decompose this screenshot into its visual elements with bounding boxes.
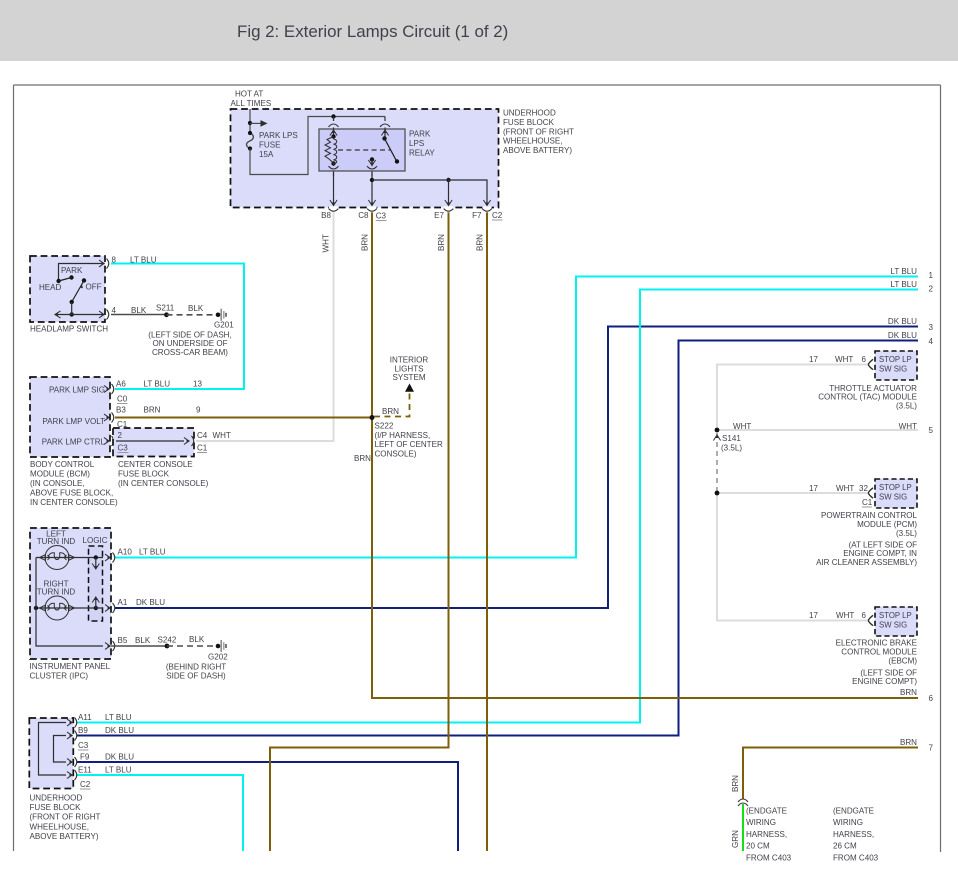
svg-text:PARK LMP SIG: PARK LMP SIG — [49, 386, 105, 395]
svg-text:PARK LMP VOLT: PARK LMP VOLT — [42, 417, 105, 426]
svg-text:SYSTEM: SYSTEM — [392, 373, 425, 382]
svg-text:RELAY: RELAY — [409, 149, 435, 158]
wire BRN relay C3 through S222 to right exit 6 — [372, 212, 918, 698]
svg-text:FUSE BLOCK: FUSE BLOCK — [503, 118, 555, 127]
svg-text:E7: E7 — [434, 211, 444, 220]
svg-text:BLK: BLK — [131, 306, 147, 315]
pin B9 — [67, 732, 72, 739]
headlamp switch blade OFF — [72, 281, 84, 303]
svg-text:2: 2 — [118, 431, 123, 440]
svg-text:WHEELHOUSE,: WHEELHOUSE, — [30, 822, 89, 831]
svg-text:S242: S242 — [158, 636, 177, 645]
svg-text:HARNESS,: HARNESS, — [746, 830, 787, 839]
svg-text:BLK: BLK — [189, 635, 205, 644]
svg-text:LT BLU: LT BLU — [139, 548, 166, 557]
relay bottom post connectors — [329, 166, 339, 169]
pin A11 — [67, 719, 72, 726]
svg-text:B8: B8 — [321, 211, 331, 220]
svg-text:Fig 2: Exterior Lamps Circuit: Fig 2: Exterior Lamps Circuit (1 of 2) — [237, 22, 508, 41]
svg-text:BRN: BRN — [437, 234, 446, 251]
wire WHT stop lamp rail TAC — [717, 365, 869, 431]
svg-text:17: 17 — [809, 611, 818, 620]
svg-text:7: 7 — [929, 744, 934, 753]
splice S211 — [164, 312, 169, 317]
svg-text:WHT: WHT — [322, 234, 331, 252]
svg-text:A10: A10 — [118, 548, 133, 557]
underhood fuse block (top) box — [231, 109, 499, 208]
logic block — [89, 546, 103, 621]
svg-text:ENGINE COMPT): ENGINE COMPT) — [852, 677, 917, 686]
svg-text:(LEFT SIDE OF: (LEFT SIDE OF — [860, 669, 917, 678]
svg-text:LPS: LPS — [409, 139, 424, 148]
svg-text:5: 5 — [929, 426, 934, 435]
svg-text:15A: 15A — [259, 150, 274, 159]
EBCM STOP LP SW SIG box — [875, 607, 917, 636]
pin E11 — [67, 772, 72, 779]
svg-text:(LEFT SIDE OF DASH,: (LEFT SIDE OF DASH, — [148, 331, 231, 340]
svg-text:SIDE OF DASH): SIDE OF DASH) — [166, 672, 226, 681]
fuse PARK LPS FUSE 15A — [249, 109, 251, 133]
svg-text:HEAD: HEAD — [39, 283, 62, 292]
svg-text:BRN: BRN — [360, 234, 369, 251]
svg-text:C1: C1 — [197, 444, 208, 453]
svg-text:1: 1 — [929, 271, 934, 280]
svg-text:THROTTLE ACTUATOR: THROTTLE ACTUATOR — [829, 384, 917, 393]
svg-text:C4: C4 — [197, 431, 208, 440]
svg-text:8: 8 — [112, 256, 117, 265]
svg-text:ON UNDERSIDE OF: ON UNDERSIDE OF — [152, 339, 227, 348]
svg-text:13: 13 — [193, 380, 202, 389]
wire DK BLU UHFB F9 down — [77, 762, 458, 851]
svg-text:POWERTRAIN CONTROL: POWERTRAIN CONTROL — [821, 511, 917, 520]
svg-text:(FRONT OF RIGHT: (FRONT OF RIGHT — [503, 127, 574, 136]
svg-text:CLUSTER (IPC): CLUSTER (IPC) — [30, 672, 89, 681]
svg-text:WHT: WHT — [899, 422, 917, 431]
svg-text:ABOVE BATTERY): ABOVE BATTERY) — [503, 146, 572, 155]
svg-text:LT BLU: LT BLU — [130, 256, 157, 265]
relay PARK LPS RELAY — [319, 129, 405, 171]
wire LT BLU IPC A10 to right exit 1 — [115, 277, 918, 558]
svg-text:SW SIG: SW SIG — [879, 621, 907, 630]
underhood fuse block (bottom) box — [29, 718, 73, 789]
svg-text:(ENDGATE: (ENDGATE — [746, 807, 788, 816]
headlamp switch contacts — [59, 264, 104, 280]
svg-text:G202: G202 — [208, 653, 228, 662]
center console fuse block box — [113, 428, 194, 457]
svg-text:G201: G201 — [214, 321, 234, 330]
svg-text:PARK: PARK — [409, 130, 431, 139]
svg-text:CONSOLE): CONSOLE) — [375, 449, 417, 458]
svg-text:WIRING: WIRING — [833, 818, 863, 827]
svg-text:DK BLU: DK BLU — [105, 753, 134, 762]
svg-text:C3: C3 — [78, 741, 89, 750]
diagram frame — [14, 84, 941, 86]
svg-text:DK BLU: DK BLU — [888, 317, 917, 326]
svg-text:BRN: BRN — [475, 234, 484, 251]
svg-text:SW SIG: SW SIG — [879, 493, 907, 502]
svg-text:A6: A6 — [116, 380, 126, 389]
svg-text:BRN: BRN — [382, 407, 399, 416]
svg-text:3: 3 — [929, 323, 934, 332]
wire BLK pin4 to S211 — [111, 314, 167, 316]
svg-text:BRN: BRN — [731, 775, 740, 792]
svg-text:(IN CONSOLE,: (IN CONSOLE, — [30, 479, 85, 488]
svg-text:LT BLU: LT BLU — [144, 380, 171, 389]
svg-text:BODY CONTROL: BODY CONTROL — [30, 460, 95, 469]
svg-text:S211: S211 — [156, 304, 175, 313]
center console pin 2 wire — [116, 440, 184, 442]
pin 4 — [99, 311, 104, 318]
fuse block internal wires to pins — [333, 173, 335, 205]
wire LT BLU UHFB E11 down — [77, 775, 243, 851]
relay actuator dashed link — [338, 149, 390, 151]
wire LT BLU UHFB A11 to right exit 2 — [77, 290, 918, 723]
wire BLK B5 to S242 — [111, 645, 167, 647]
svg-text:SW SIG: SW SIG — [879, 365, 907, 374]
svg-text:STOP LP: STOP LP — [879, 483, 912, 492]
svg-text:CONTROL MODULE: CONTROL MODULE — [841, 648, 917, 657]
svg-text:GRN: GRN — [731, 830, 740, 848]
pin A10 — [105, 554, 110, 561]
svg-text:2: 2 — [929, 285, 934, 294]
svg-text:C3: C3 — [118, 444, 129, 453]
svg-text:DK BLU: DK BLU — [136, 598, 165, 607]
endgate inline connector C403 — [738, 799, 748, 802]
wire BRN BCM B3 to S222 — [115, 417, 372, 419]
svg-text:BRN: BRN — [144, 406, 161, 415]
svg-text:DK BLU: DK BLU — [888, 331, 917, 340]
svg-text:C2: C2 — [80, 780, 91, 789]
svg-text:WHT: WHT — [836, 611, 854, 620]
svg-text:PARK LMP CTRL: PARK LMP CTRL — [42, 438, 106, 447]
fuse block bottom border bumps B8 C8 E7 F7 — [329, 206, 338, 212]
svg-text:UNDERHOOD: UNDERHOOD — [503, 109, 556, 118]
wire WHT exit 5 from S141 — [717, 429, 918, 431]
wire WHT B8 to center console C4 — [196, 212, 334, 441]
svg-text:ABOVE BATTERY): ABOVE BATTERY) — [30, 832, 99, 841]
svg-text:C8: C8 — [358, 211, 369, 220]
wire WHT rail to EBCM — [717, 494, 869, 621]
svg-text:STOP LP: STOP LP — [879, 611, 912, 620]
svg-text:BLK: BLK — [135, 636, 151, 645]
relay top post connectors — [331, 114, 335, 118]
ground G202 — [216, 644, 221, 649]
svg-text:(ENDGATE: (ENDGATE — [833, 807, 875, 816]
svg-text:(EBCM): (EBCM) — [888, 657, 917, 666]
svg-text:IN CENTER CONSOLE): IN CENTER CONSOLE) — [30, 498, 118, 507]
svg-text:LEFT OF CENTER: LEFT OF CENTER — [375, 440, 443, 449]
svg-text:AIR CLEANER ASSEMBLY): AIR CLEANER ASSEMBLY) — [816, 558, 917, 567]
svg-text:6: 6 — [862, 355, 867, 364]
svg-text:HARNESS,: HARNESS, — [833, 830, 874, 839]
svg-text:CENTER CONSOLE: CENTER CONSOLE — [118, 460, 193, 469]
svg-text:ALL TIMES: ALL TIMES — [231, 99, 272, 108]
svg-text:HOT AT: HOT AT — [235, 90, 263, 99]
svg-text:LT BLU: LT BLU — [890, 267, 917, 276]
splice S141 — [715, 428, 720, 433]
svg-text:C2: C2 — [492, 211, 503, 220]
svg-text:HEADLAMP SWITCH: HEADLAMP SWITCH — [30, 325, 108, 334]
instrument panel cluster box — [30, 528, 111, 659]
svg-text:ELECTRONIC BRAKE: ELECTRONIC BRAKE — [836, 639, 918, 648]
svg-text:(I/P HARNESS,: (I/P HARNESS, — [375, 431, 431, 440]
svg-text:FUSE BLOCK: FUSE BLOCK — [118, 470, 170, 479]
svg-text:26 CM: 26 CM — [833, 842, 857, 851]
relay switch blade — [382, 136, 386, 140]
svg-text:E11: E11 — [78, 766, 92, 775]
svg-text:CROSS-CAR BEAM): CROSS-CAR BEAM) — [152, 348, 228, 357]
svg-text:TURN IND: TURN IND — [37, 588, 76, 597]
svg-text:PARK: PARK — [61, 266, 83, 275]
svg-text:F7: F7 — [472, 211, 482, 220]
svg-text:C1: C1 — [862, 498, 873, 507]
svg-text:4: 4 — [112, 306, 117, 315]
svg-text:BLK: BLK — [188, 304, 204, 313]
svg-text:DK BLU: DK BLU — [105, 726, 134, 735]
pin B5 — [105, 643, 110, 650]
pin A1 — [105, 605, 110, 612]
svg-text:B5: B5 — [118, 636, 128, 645]
svg-text:(FRONT OF RIGHT: (FRONT OF RIGHT — [30, 813, 101, 822]
splice S222 — [370, 415, 375, 420]
headlamp switch box — [30, 256, 105, 322]
svg-text:F9: F9 — [80, 753, 90, 762]
wire WHT dashed harness section S141 — [716, 433, 718, 491]
svg-text:C0: C0 — [117, 395, 128, 404]
pin F9 — [67, 759, 72, 766]
wire DK BLU IPC A1 to right exit 3 — [115, 327, 918, 609]
svg-text:S141: S141 — [722, 434, 741, 443]
svg-text:WHT: WHT — [733, 422, 751, 431]
svg-text:WHT: WHT — [835, 355, 853, 364]
svg-text:LOGIC: LOGIC — [82, 536, 107, 545]
svg-text:C3: C3 — [376, 212, 387, 221]
relay coil — [331, 134, 335, 138]
svg-text:WHT: WHT — [213, 431, 231, 440]
PCM STOP LP SW SIG box — [875, 479, 917, 508]
svg-text:MODULE (BCM): MODULE (BCM) — [30, 470, 90, 479]
svg-text:LT BLU: LT BLU — [105, 713, 132, 722]
svg-text:WHT: WHT — [836, 484, 854, 493]
svg-text:LT BLU: LT BLU — [890, 280, 917, 289]
svg-text:20 CM: 20 CM — [746, 842, 770, 851]
svg-text:BRN: BRN — [354, 454, 371, 463]
title bar — [0, 0, 958, 61]
svg-text:FROM C403: FROM C403 — [746, 853, 792, 862]
wire BLK dashed to G202 — [167, 645, 214, 647]
wire BRN relay E7 down-left-down — [270, 212, 449, 851]
svg-text:B3: B3 — [116, 406, 126, 415]
wire DK BLU UHFB B9 to right exit 4 — [77, 341, 918, 736]
svg-text:BRN: BRN — [900, 688, 917, 697]
svg-text:CONTROL (TAC) MODULE: CONTROL (TAC) MODULE — [818, 393, 917, 402]
svg-text:17: 17 — [809, 484, 818, 493]
internal bus B9-F9 — [54, 736, 67, 763]
wire GRN endgate harness — [742, 804, 744, 851]
svg-text:FUSE: FUSE — [259, 141, 281, 150]
wire BRN relay F7/C2 down — [486, 212, 488, 851]
svg-text:(IN CENTER CONSOLE): (IN CENTER CONSOLE) — [118, 479, 209, 488]
svg-text:(3.5L): (3.5L) — [896, 401, 917, 410]
relay common post — [370, 157, 374, 161]
dashed BRN branch to interior lights — [374, 393, 410, 417]
internal bus A11-E11 — [39, 723, 67, 776]
svg-text:32: 32 — [859, 484, 868, 493]
svg-text:MODULE (PCM): MODULE (PCM) — [857, 520, 917, 529]
IPC left bus to B5 — [36, 558, 103, 647]
svg-text:B9: B9 — [78, 726, 88, 735]
svg-text:S222: S222 — [375, 422, 394, 431]
ground G201 — [216, 313, 221, 318]
svg-text:LIGHTS: LIGHTS — [394, 364, 423, 373]
svg-text:LT BLU: LT BLU — [105, 766, 132, 775]
svg-text:6: 6 — [862, 611, 867, 620]
svg-text:STOP LP: STOP LP — [879, 355, 912, 364]
svg-text:INTERIOR: INTERIOR — [390, 356, 429, 365]
svg-text:FROM C403: FROM C403 — [833, 853, 879, 862]
svg-text:4: 4 — [929, 337, 934, 346]
TAC STOP LP SW SIG box — [875, 351, 917, 380]
svg-text:ENGINE COMPT, IN: ENGINE COMPT, IN — [843, 549, 917, 558]
svg-text:UNDERHOOD: UNDERHOOD — [30, 794, 83, 803]
svg-text:INSTRUMENT PANEL: INSTRUMENT PANEL — [30, 662, 111, 671]
svg-text:6: 6 — [929, 694, 934, 703]
body control module (BCM) box — [30, 377, 110, 457]
svg-text:(3.5L): (3.5L) — [721, 444, 742, 453]
wire BRN exit 7 to endgate connector — [743, 748, 918, 800]
svg-text:WIRING: WIRING — [746, 818, 776, 827]
svg-text:ABOVE FUSE BLOCK,: ABOVE FUSE BLOCK, — [30, 489, 113, 498]
svg-text:PARK LPS: PARK LPS — [259, 131, 298, 140]
wire WHT rail to PCM — [717, 492, 869, 494]
svg-text:(AT LEFT SIDE OF: (AT LEFT SIDE OF — [849, 541, 917, 550]
svg-text:9: 9 — [196, 406, 201, 415]
wire LT BLU headlamp pin8 to BCM A6 — [111, 264, 244, 390]
svg-text:TURN IND: TURN IND — [37, 537, 76, 546]
svg-text:(3.5L): (3.5L) — [896, 529, 917, 538]
svg-text:WHEELHOUSE,: WHEELHOUSE, — [503, 137, 562, 146]
svg-text:OFF: OFF — [86, 283, 102, 292]
wire BLK dashed to G201 — [167, 314, 215, 316]
svg-text:(BEHIND RIGHT: (BEHIND RIGHT — [166, 663, 226, 672]
svg-text:A1: A1 — [118, 598, 128, 607]
svg-text:BRN: BRN — [900, 738, 917, 747]
pin 8 — [99, 260, 104, 267]
splice S242 — [165, 644, 170, 649]
svg-text:A11: A11 — [78, 713, 92, 722]
svg-text:FUSE BLOCK: FUSE BLOCK — [30, 803, 82, 812]
svg-text:17: 17 — [809, 355, 818, 364]
